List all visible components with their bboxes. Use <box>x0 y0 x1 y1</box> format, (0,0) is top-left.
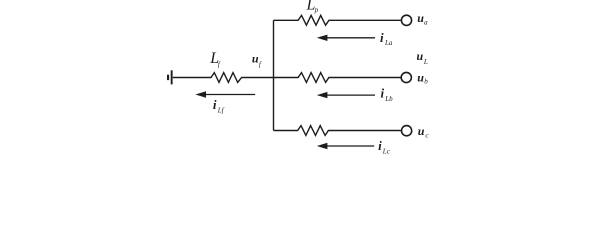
svg-text:f: f <box>218 61 221 69</box>
svg-text:i: i <box>213 97 217 112</box>
svg-text:Lb: Lb <box>384 95 393 103</box>
svg-text:a: a <box>424 19 428 27</box>
svg-text:La: La <box>384 39 393 47</box>
svg-text:u: u <box>418 124 425 138</box>
svg-text:c: c <box>425 132 429 140</box>
svg-text:Lf: Lf <box>217 107 225 115</box>
svg-text:p: p <box>314 6 319 14</box>
svg-text:i: i <box>381 86 385 101</box>
svg-text:u: u <box>252 52 259 66</box>
svg-text:f: f <box>259 60 262 68</box>
svg-text:i: i <box>380 30 384 45</box>
svg-text:u: u <box>417 71 424 85</box>
svg-text:i: i <box>378 138 382 153</box>
svg-text:L: L <box>423 58 428 66</box>
svg-text:u: u <box>417 49 424 63</box>
svg-text:b: b <box>424 78 428 86</box>
svg-text:Lc: Lc <box>382 147 391 154</box>
